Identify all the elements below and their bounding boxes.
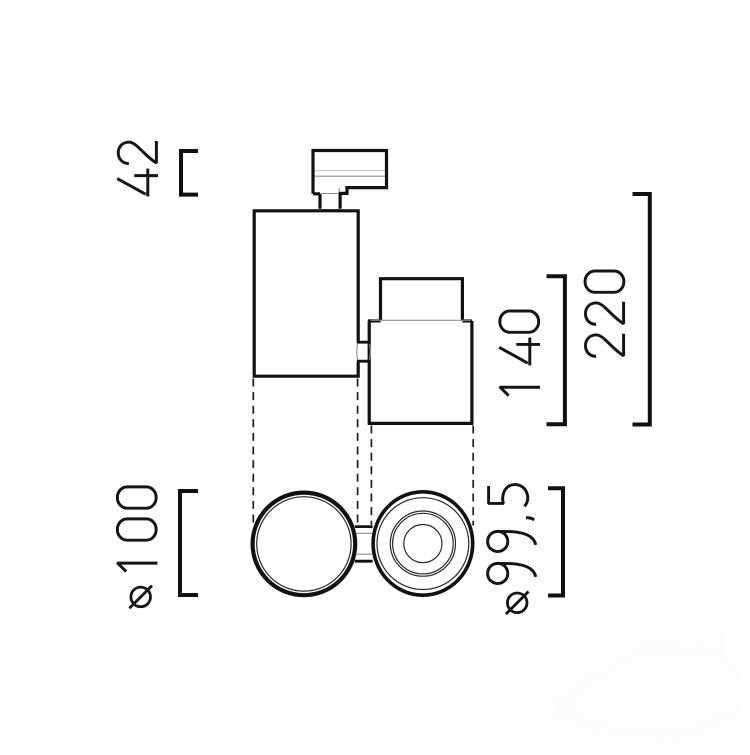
label 42 — [117, 141, 158, 197]
right circle ring 2 — [390, 511, 455, 576]
right spot lower box left step — [368, 319, 381, 322]
label 100 — [117, 487, 158, 572]
label 140 — [499, 311, 540, 396]
right spot lower box outline — [368, 321, 474, 424]
circles connector bars — [355, 527, 373, 562]
right circle ring 1 — [377, 498, 469, 590]
adapter tab thin edge — [338, 188, 340, 192]
dashed projection line body right — [472, 426, 474, 526]
left circle inner — [257, 497, 351, 591]
circles connector thin lines — [356, 533, 372, 554]
dia symbol 99,5 — [506, 592, 529, 615]
right circle lens — [404, 525, 442, 563]
right spot lower box right step — [462, 319, 472, 322]
label 220 — [585, 271, 624, 356]
bracket dia99.5 — [548, 488, 563, 595]
bracket dia100 — [180, 491, 198, 595]
faint watermark — [0, 0, 1, 1]
bracket 220 — [633, 194, 650, 425]
main cylinder body (side view) — [254, 211, 358, 376]
right spot top seam thin — [371, 319, 471, 321]
stem seam top — [322, 193, 339, 195]
bracket 140 — [547, 276, 565, 424]
right circle ring 3 — [393, 513, 454, 574]
label 99,5 — [488, 485, 536, 584]
adapter seam line light — [315, 170, 385, 172]
hinge connector side arcs — [357, 344, 371, 360]
dia symbol 100 — [129, 586, 152, 609]
stem seam bottom — [322, 209, 339, 211]
dashed projection line cylinder right — [357, 379, 359, 526]
dashed projection line body left — [370, 426, 372, 526]
adapter seam line gray — [315, 175, 385, 177]
right circle outer — [373, 492, 473, 595]
left circle outer — [253, 493, 356, 596]
dashed projection line left — [252, 379, 254, 528]
bracket 42 — [181, 151, 198, 195]
right spot upper box — [381, 279, 463, 320]
hinge connector bars — [357, 342, 371, 361]
track adapter box — [313, 151, 387, 209]
